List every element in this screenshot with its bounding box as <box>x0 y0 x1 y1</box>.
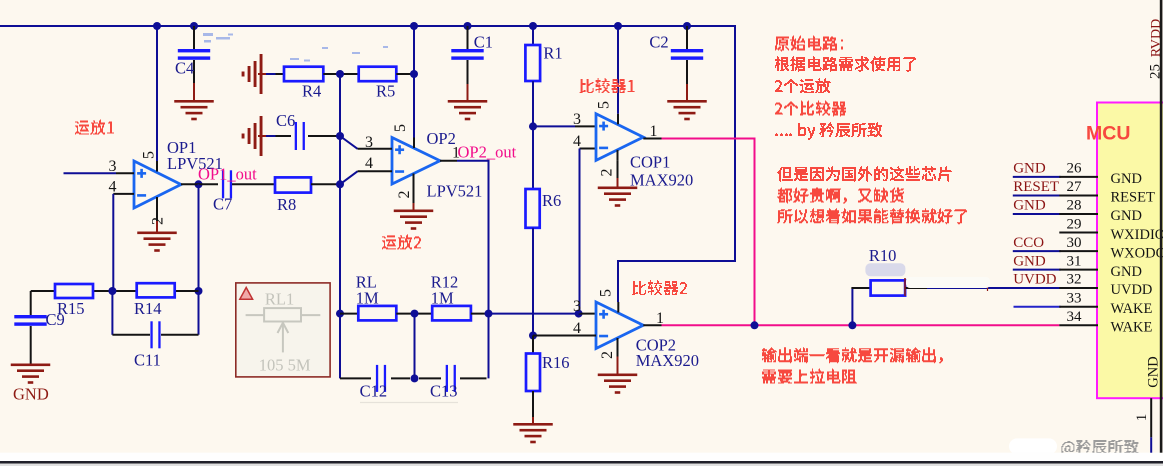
svg-text:33: 33 <box>1067 290 1082 306</box>
smudge tick <box>987 284 989 292</box>
label comparator 1 <box>580 78 635 93</box>
node <box>108 287 116 295</box>
svg-text:GND: GND <box>13 385 49 404</box>
resistor RL <box>358 306 396 321</box>
svg-text:MAX920: MAX920 <box>630 171 693 190</box>
wire <box>532 336 534 355</box>
annotation line <box>762 369 857 384</box>
resistor R10 <box>871 280 906 295</box>
svg-text:R1: R1 <box>543 44 562 63</box>
wire COP1 output net <box>662 138 756 140</box>
svg-text:29: 29 <box>1067 216 1082 232</box>
annotation line <box>775 122 882 140</box>
wire <box>340 313 358 315</box>
label comparator 2 <box>632 280 687 295</box>
wire to COP2 <box>489 313 579 315</box>
node <box>411 310 419 318</box>
svg-text:105 5M: 105 5M <box>259 356 311 375</box>
resistor R6 <box>526 189 540 228</box>
node <box>751 321 759 329</box>
wire UVDD net <box>927 287 1061 289</box>
node <box>848 321 856 329</box>
annotation line <box>762 347 943 363</box>
resistor R14 <box>137 283 175 297</box>
wire OP2 pin5 <box>413 26 415 138</box>
wire COP2 output <box>643 324 661 326</box>
resistor R12 <box>432 306 471 321</box>
svg-text:2: 2 <box>150 217 167 225</box>
pin 33 of MCU <box>1014 306 1061 308</box>
svg-text:WXODO: WXODO <box>1111 245 1163 261</box>
smudge tick <box>904 278 906 296</box>
svg-text:RESET: RESET <box>1111 190 1155 206</box>
resistor R16 <box>526 354 540 392</box>
pin 31 of MCU <box>1013 269 1061 271</box>
wire COP1 pin2 <box>617 160 619 178</box>
svg-text:34: 34 <box>1067 309 1083 325</box>
svg-text:4: 4 <box>109 179 117 196</box>
svg-text:OP1_out: OP1_out <box>198 165 257 184</box>
wire <box>414 314 416 379</box>
wire <box>419 377 441 379</box>
ground below C1 <box>448 100 488 103</box>
ground below COP2 <box>598 374 638 377</box>
pin 30 of MCU <box>1013 250 1061 252</box>
svg-text:32: 32 <box>1067 272 1082 288</box>
node on top rail <box>464 22 472 30</box>
pin 29 of MCU <box>1059 232 1098 234</box>
capacitor C7 <box>222 170 224 198</box>
comparator COP1 <box>596 114 643 161</box>
capacitor C6 <box>295 122 297 150</box>
wire <box>905 287 927 289</box>
wire <box>232 183 275 185</box>
svg-text:5: 5 <box>141 151 158 159</box>
pin 32 of MCU <box>1059 287 1098 289</box>
node <box>485 310 493 318</box>
wire <box>579 313 596 315</box>
ground below OP1 <box>137 232 177 235</box>
svg-text:3: 3 <box>365 134 373 151</box>
wire C12 row <box>340 377 371 379</box>
ground below C2 <box>667 100 707 103</box>
ground left of C6 <box>260 116 263 156</box>
wire <box>396 73 414 75</box>
wire <box>851 288 853 325</box>
svg-text:RESET: RESET <box>1013 179 1059 195</box>
annotation line <box>777 188 904 204</box>
svg-text:LPV521: LPV521 <box>427 182 483 201</box>
MCU bottom pin 1 wire <box>1150 398 1152 437</box>
wire COP2 pin4 <box>533 335 596 337</box>
svg-text:C11: C11 <box>134 351 161 370</box>
svg-text:5: 5 <box>598 289 615 297</box>
smudge <box>360 402 458 404</box>
wire <box>532 81 534 126</box>
svg-text:C9: C9 <box>46 310 65 329</box>
capacitor C4 <box>193 26 195 50</box>
wire <box>532 126 534 190</box>
right edge border line <box>1160 0 1163 462</box>
capacitor C9 <box>30 291 32 316</box>
smudge streak <box>906 277 990 288</box>
wire <box>323 73 358 75</box>
watermark <box>1061 440 1138 456</box>
disabled part RL1 box <box>236 283 330 377</box>
svg-text:C13: C13 <box>430 382 458 401</box>
wire <box>851 287 870 289</box>
node <box>529 122 537 130</box>
label op-amp 1 <box>75 120 114 135</box>
svg-text:27: 27 <box>1067 179 1083 195</box>
svg-text:5: 5 <box>596 101 613 109</box>
ground below OP2 <box>394 210 434 213</box>
svg-text:COP1: COP1 <box>630 153 670 172</box>
svg-text:4: 4 <box>365 155 373 172</box>
resistor R5 <box>359 67 397 82</box>
svg-text:3: 3 <box>573 111 581 128</box>
svg-text:1M: 1M <box>431 289 454 308</box>
node <box>336 180 344 188</box>
wire OP1 pin3 <box>64 172 117 174</box>
ground below R16 <box>513 423 553 426</box>
node <box>411 374 419 382</box>
ground left of R4 <box>260 54 263 94</box>
svg-text:C12: C12 <box>360 382 388 401</box>
op-amp OP1 <box>134 161 181 208</box>
comparator COP2 <box>596 302 643 349</box>
node <box>336 70 344 78</box>
wire <box>471 313 489 315</box>
svg-text:1: 1 <box>1134 414 1150 422</box>
wire OP1 pin5 <box>156 26 158 161</box>
wire <box>311 183 340 185</box>
svg-text:GND: GND <box>1013 198 1046 214</box>
svg-text:OP2_out: OP2_out <box>458 143 517 162</box>
svg-text:UVDD: UVDD <box>1013 272 1056 288</box>
error marker triangle <box>240 288 253 300</box>
resistor R15 <box>55 284 93 298</box>
annotation line <box>775 78 831 93</box>
svg-text:WAKE: WAKE <box>1111 301 1153 317</box>
node on top rail <box>410 22 418 30</box>
capacitor C12 <box>376 365 378 392</box>
wire <box>258 73 266 75</box>
wire <box>396 313 432 315</box>
smudge speckles <box>203 33 388 62</box>
capacitor C13 <box>446 365 448 392</box>
wire COP1 pin3 <box>533 125 575 127</box>
bottom page area <box>0 464 1163 466</box>
svg-text:4: 4 <box>573 133 581 150</box>
svg-text:C7: C7 <box>213 195 232 214</box>
node <box>410 70 418 78</box>
svg-text:1M: 1M <box>356 289 379 308</box>
wire feedback row <box>31 290 55 292</box>
wire OP2 pin4 diagonal <box>340 171 358 184</box>
wire OP2 pin3 diagonal <box>340 136 358 149</box>
svg-text:C1: C1 <box>474 33 493 52</box>
node on top rail <box>529 22 537 30</box>
wire COP2 pin5 <box>617 260 619 302</box>
svg-text:26: 26 <box>1067 161 1083 177</box>
pin 26 of MCU <box>1013 176 1061 178</box>
svg-text:5: 5 <box>392 124 409 132</box>
svg-text:CCO: CCO <box>1013 235 1044 251</box>
svg-text:4: 4 <box>573 320 581 337</box>
svg-text:GND: GND <box>1111 264 1142 280</box>
wire <box>532 26 534 46</box>
wire OP2 pin2 <box>413 184 415 203</box>
svg-text:R6: R6 <box>542 191 561 210</box>
wire <box>532 228 534 336</box>
svg-text:28: 28 <box>1067 198 1082 214</box>
ground below COP1 <box>598 187 638 190</box>
svg-text:1: 1 <box>650 123 658 140</box>
svg-text:C4: C4 <box>175 59 194 78</box>
node <box>195 287 203 295</box>
node <box>336 310 344 318</box>
svg-text:GND: GND <box>1111 171 1142 187</box>
svg-text:WXIDIO: WXIDIO <box>1111 227 1163 243</box>
wire <box>532 391 534 417</box>
svg-text:GND: GND <box>1111 208 1142 224</box>
wire COP2 power horizontal <box>617 260 736 262</box>
wire OP2 output drop <box>488 161 490 379</box>
wire <box>258 135 266 137</box>
svg-text:WAKE: WAKE <box>1111 320 1153 336</box>
annotation line <box>775 36 843 52</box>
resistor R8 <box>275 177 311 192</box>
svg-text:2: 2 <box>599 351 616 359</box>
bottom white band <box>0 453 1163 461</box>
ground below C9 <box>11 364 51 367</box>
bottom border line <box>0 461 1163 464</box>
svg-text:R8: R8 <box>277 195 296 214</box>
top power rail wire <box>0 25 736 27</box>
svg-text:R16: R16 <box>542 353 570 372</box>
svg-text:R5: R5 <box>376 82 395 101</box>
svg-text:3: 3 <box>573 298 581 315</box>
wire OP1 pin2 <box>156 208 158 221</box>
pin 27 of MCU <box>1013 194 1061 196</box>
wire COP1 pin5 <box>617 26 619 114</box>
svg-text:2: 2 <box>396 191 413 199</box>
MCU block <box>1097 103 1163 399</box>
svg-text:2: 2 <box>599 169 616 177</box>
label op-amp 2 <box>382 234 421 249</box>
wire middle column <box>339 74 341 378</box>
node <box>575 310 583 318</box>
node on top rail <box>153 22 161 30</box>
capacitor C2 <box>686 26 688 50</box>
annotation line <box>775 101 846 117</box>
node <box>529 332 537 340</box>
wire COP1 pin4 <box>580 148 597 150</box>
capacitor C1 <box>467 26 469 50</box>
svg-text:RL1: RL1 <box>265 290 294 309</box>
watermark erase blob <box>1009 438 1057 454</box>
op-amp OP2 <box>392 138 440 185</box>
wire COP2 output net <box>662 324 1060 326</box>
wire COP2 pin2 <box>617 349 619 357</box>
node on top rail <box>190 22 198 30</box>
pin 34 of MCU <box>1059 324 1098 326</box>
ground below C4 <box>174 100 214 103</box>
svg-text:30: 30 <box>1067 235 1082 251</box>
resistor R4 <box>284 67 323 82</box>
svg-text:GND: GND <box>1013 253 1046 269</box>
potentiometer RL1 symbol <box>264 308 301 321</box>
node <box>336 132 344 140</box>
svg-text:UVDD: UVDD <box>1111 282 1153 298</box>
node OP1 output <box>195 180 203 188</box>
wire COP1 output <box>643 138 661 140</box>
svg-text:MAX920: MAX920 <box>636 351 699 370</box>
node on top rail <box>683 22 691 30</box>
wire OP2 output <box>440 160 457 162</box>
wire top rail right drop <box>734 25 736 262</box>
svg-text:C6: C6 <box>276 111 295 130</box>
wire OP1 output <box>181 183 199 185</box>
svg-text:R10: R10 <box>869 246 897 265</box>
svg-text:3: 3 <box>109 158 117 175</box>
svg-text:C2: C2 <box>649 33 668 52</box>
svg-text:GND: GND <box>1013 161 1046 177</box>
resistor R1 <box>525 45 540 81</box>
svg-text:31: 31 <box>1067 253 1082 269</box>
wire <box>460 377 487 379</box>
svg-text:MCU: MCU <box>1086 123 1130 145</box>
annotation line <box>777 208 967 224</box>
wire C11 branch <box>111 291 113 335</box>
wire <box>754 139 756 326</box>
node on top rail <box>614 22 622 30</box>
annotation line <box>777 166 952 182</box>
capacitor C11 <box>150 321 152 348</box>
pin 28 of MCU <box>1013 213 1061 215</box>
svg-text:R4: R4 <box>302 82 321 101</box>
wire <box>308 135 340 137</box>
wire OP1 feedback drop <box>198 184 200 334</box>
svg-text:GND: GND <box>1146 356 1162 387</box>
svg-text:R14: R14 <box>134 299 162 318</box>
smudge blob <box>865 263 905 276</box>
annotation line <box>775 56 916 72</box>
wire OP1 pin4 <box>113 193 134 195</box>
